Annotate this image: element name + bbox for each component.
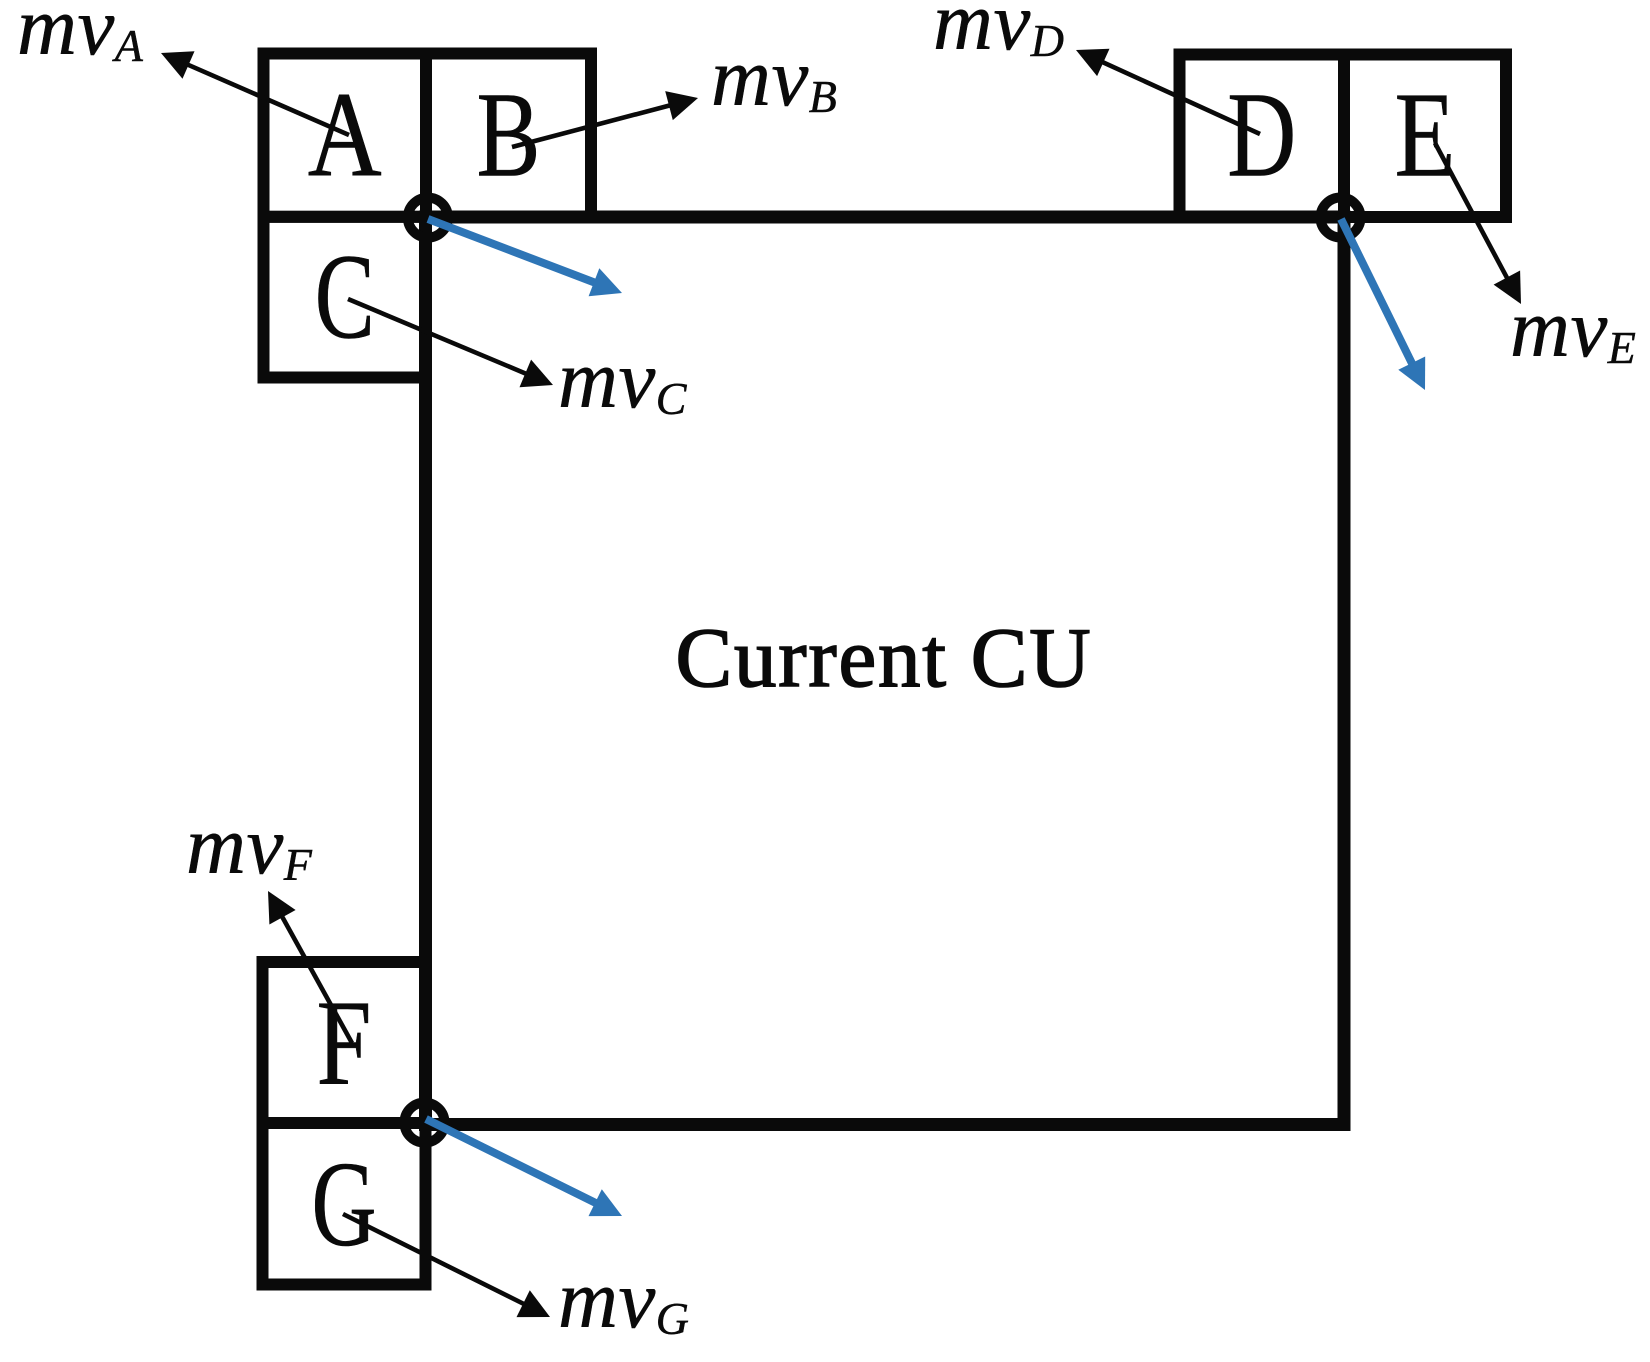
arrow mvG <box>343 1214 525 1305</box>
svg-text:E: E <box>1395 68 1456 203</box>
arrow mvF <box>282 916 353 1044</box>
neighbour block A <box>264 54 427 217</box>
neighbour block G <box>263 1123 426 1285</box>
arrow mvE <box>1435 143 1508 279</box>
blue MV arrow top-left <box>428 219 596 283</box>
current CU square <box>426 217 1345 1125</box>
blue MV arrow top-right <box>1341 219 1413 365</box>
corner node circle top-left <box>408 198 448 238</box>
blue MV arrow bottom-left <box>426 1119 597 1204</box>
neighbour block E <box>1344 55 1506 218</box>
arrow mvA <box>187 64 349 135</box>
neighbour block D <box>1180 55 1345 218</box>
corner node circle bottom-left <box>405 1103 445 1143</box>
neighbour block F <box>263 962 426 1123</box>
arrow mvC <box>348 299 527 374</box>
arrow mvB <box>512 105 671 147</box>
svg-text:B: B <box>477 67 541 202</box>
arrow mvD <box>1102 62 1261 134</box>
svg-text:Current CU: Current CU <box>676 611 1093 705</box>
svg-text:C: C <box>315 229 375 364</box>
svg-text:D: D <box>1227 68 1296 203</box>
neighbour block C <box>264 217 427 378</box>
corner node circle top-right <box>1321 198 1361 238</box>
neighbour block B <box>426 54 591 217</box>
svg-text:G: G <box>312 1137 377 1272</box>
